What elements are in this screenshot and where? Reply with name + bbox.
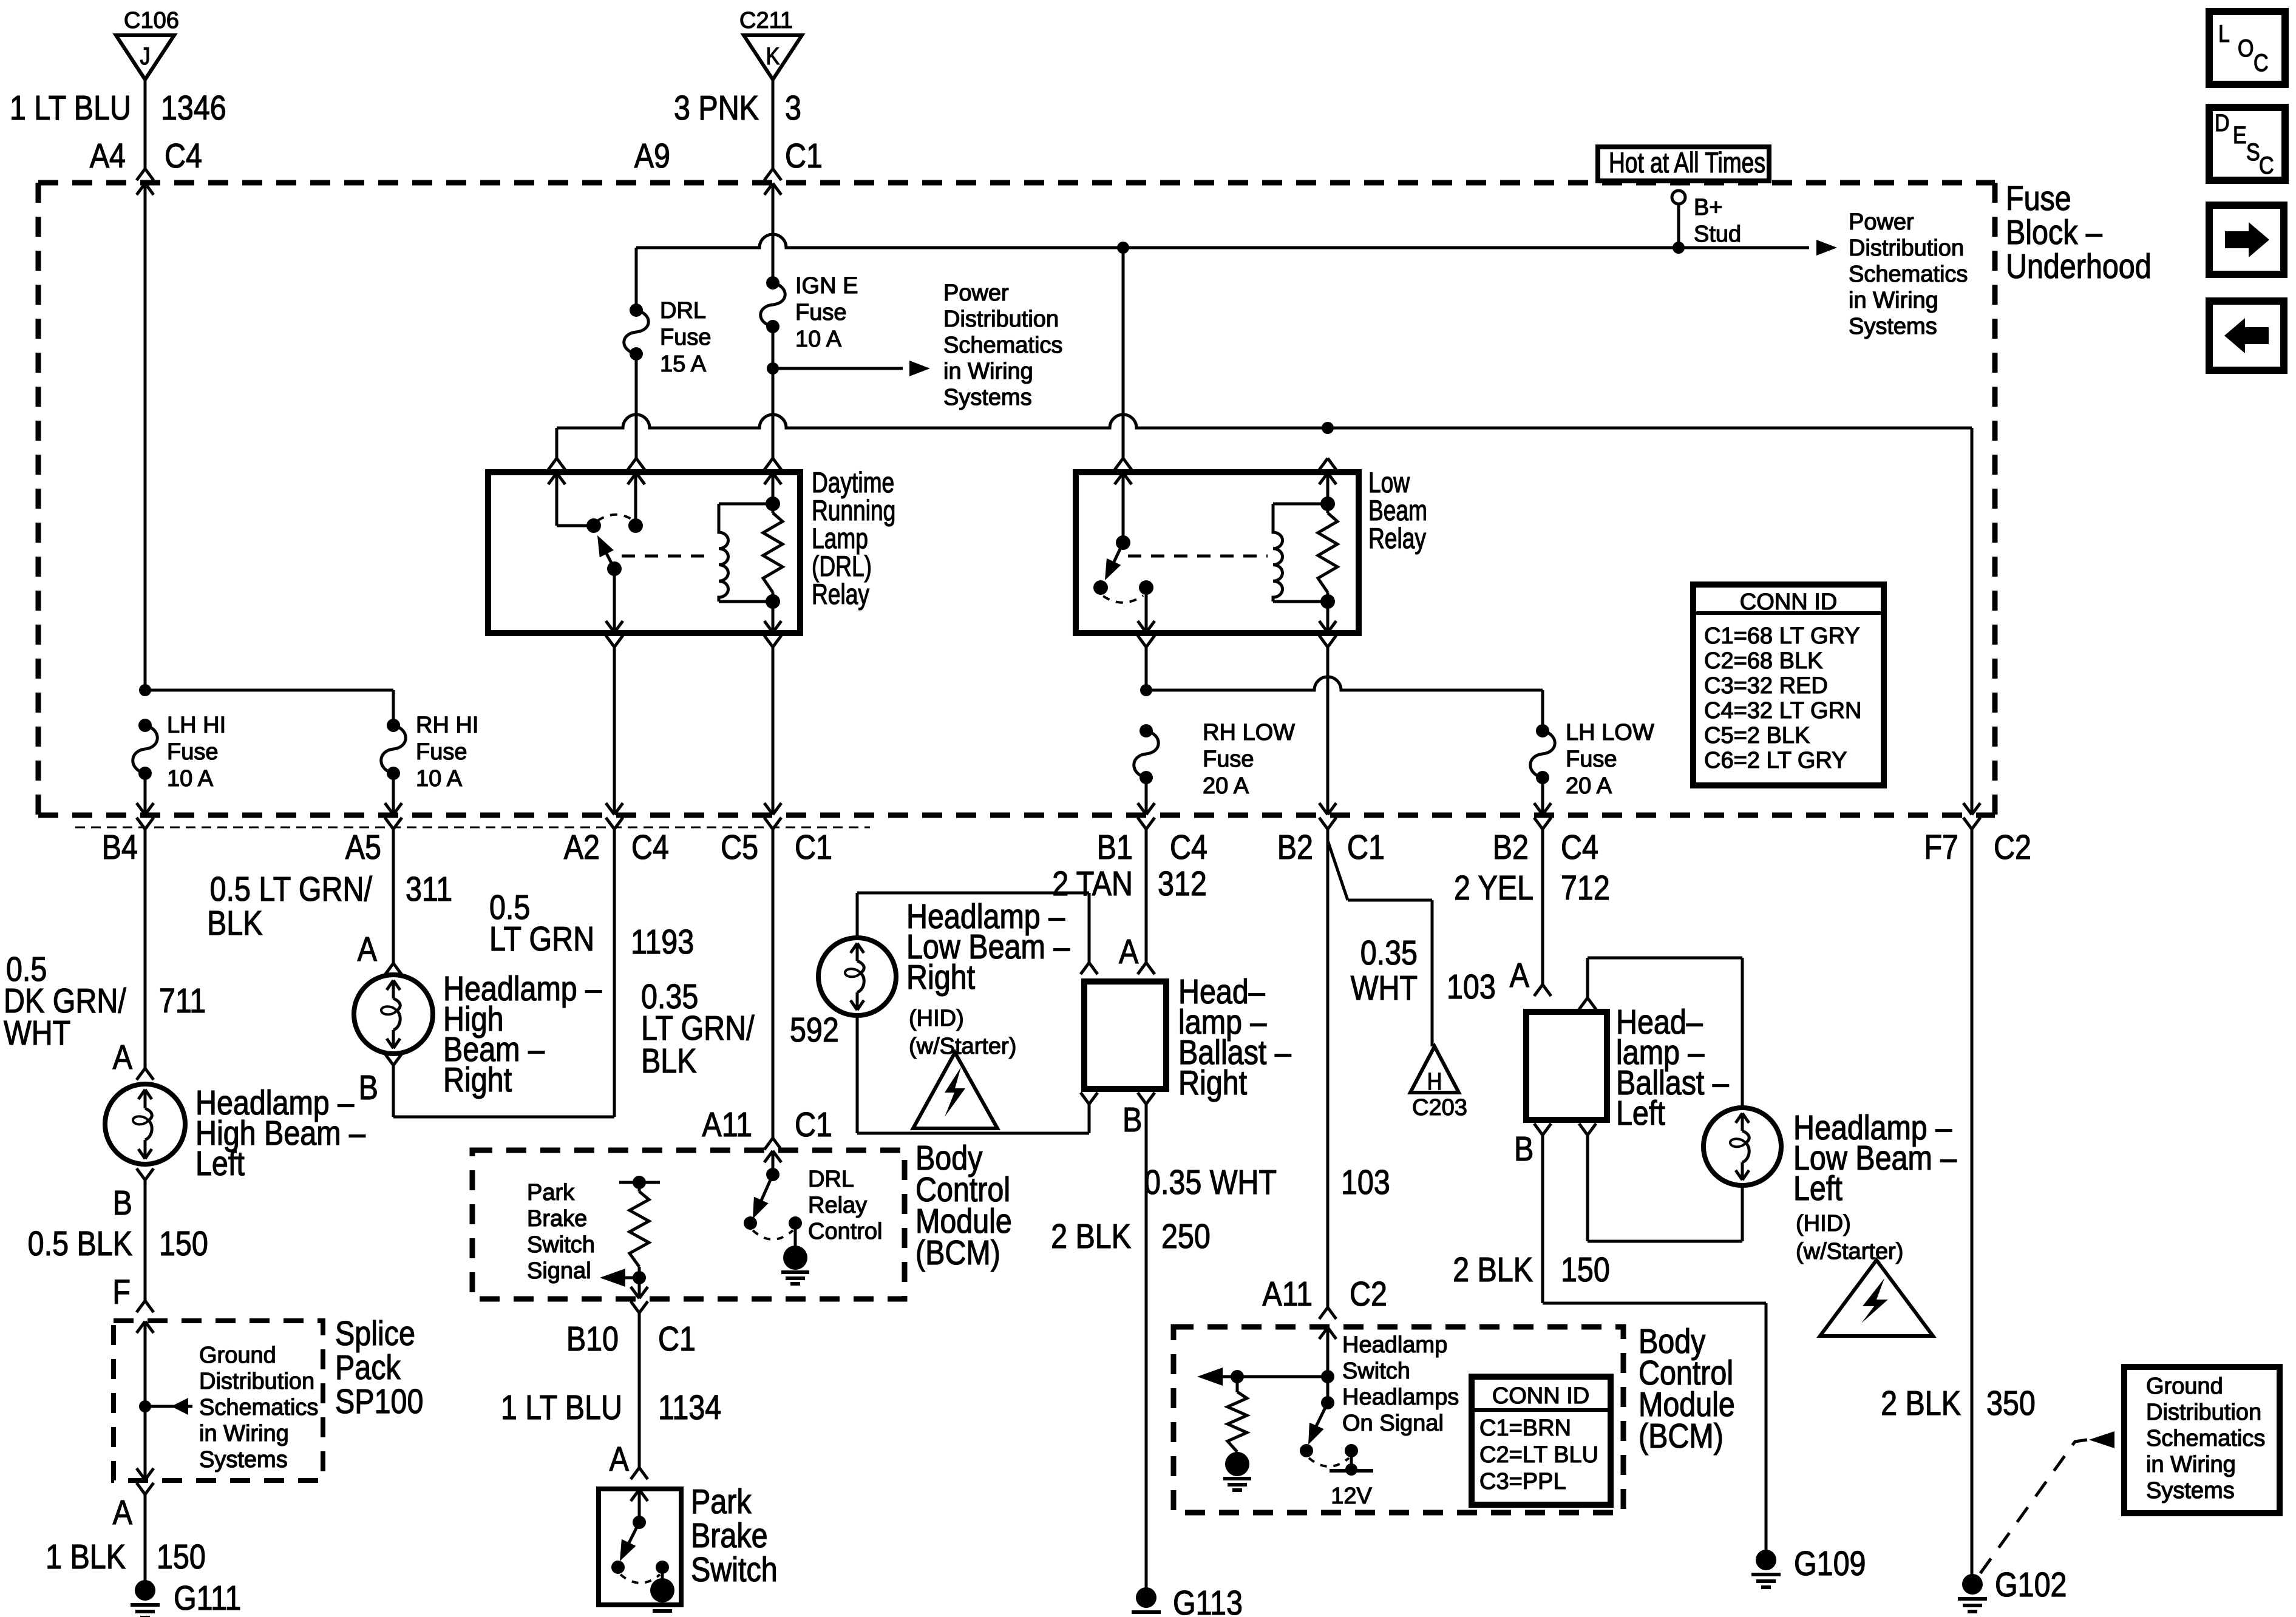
- svg-text:1 BLK: 1 BLK: [46, 1537, 126, 1576]
- svg-text:312: 312: [1158, 864, 1207, 903]
- svg-text:in Wiring: in Wiring: [199, 1421, 289, 1446]
- svg-text:A9: A9: [634, 137, 670, 175]
- svg-text:H: H: [1427, 1067, 1442, 1094]
- svg-text:2 YEL: 2 YEL: [1454, 869, 1533, 907]
- svg-text:D: D: [2215, 109, 2230, 136]
- svg-text:Distribution: Distribution: [943, 307, 1059, 332]
- svg-text:Right: Right: [443, 1060, 512, 1099]
- svg-text:B1: B1: [1097, 828, 1133, 867]
- svg-text:C: C: [2254, 49, 2269, 76]
- svg-text:B+: B+: [1694, 195, 1723, 220]
- svg-text:Left: Left: [1793, 1169, 1843, 1208]
- svg-text:A: A: [610, 1440, 630, 1479]
- svg-text:1346: 1346: [161, 89, 226, 127]
- svg-text:CONN ID: CONN ID: [1492, 1383, 1589, 1409]
- svg-text:Park: Park: [527, 1180, 575, 1205]
- svg-text:Left: Left: [1616, 1094, 1665, 1133]
- svg-text:A2: A2: [564, 828, 600, 867]
- svg-text:F: F: [112, 1273, 131, 1312]
- svg-text:A: A: [113, 1493, 133, 1532]
- svg-text:10 A: 10 A: [416, 766, 463, 792]
- svg-text:0.35 WHT: 0.35 WHT: [1144, 1163, 1277, 1202]
- svg-text:Systems: Systems: [199, 1447, 288, 1473]
- svg-text:Relay: Relay: [808, 1193, 867, 1218]
- svg-text:712: 712: [1561, 869, 1610, 907]
- svg-text:103: 103: [1341, 1163, 1390, 1202]
- svg-text:12V: 12V: [1331, 1483, 1372, 1509]
- svg-text:A: A: [358, 930, 378, 969]
- svg-text:C4=32 LT GRN: C4=32 LT GRN: [1704, 698, 1861, 724]
- svg-text:Distribution: Distribution: [2146, 1400, 2261, 1425]
- svg-text:Schematics: Schematics: [943, 333, 1062, 358]
- svg-text:Fuse: Fuse: [660, 325, 711, 350]
- svg-text:Fuse: Fuse: [2006, 179, 2071, 218]
- svg-text:20 A: 20 A: [1566, 773, 1612, 799]
- svg-text:DRL: DRL: [660, 298, 706, 324]
- svg-text:Switch: Switch: [1342, 1358, 1410, 1384]
- svg-text:L: L: [2218, 19, 2230, 47]
- svg-text:C1: C1: [658, 1320, 696, 1358]
- svg-text:Pack: Pack: [335, 1348, 401, 1387]
- svg-text:B: B: [359, 1068, 378, 1107]
- svg-text:150: 150: [157, 1537, 206, 1576]
- svg-text:Headlamp: Headlamp: [1342, 1332, 1447, 1358]
- svg-text:A11: A11: [702, 1105, 752, 1144]
- svg-text:Lamp: Lamp: [812, 523, 868, 554]
- svg-text:B: B: [1514, 1130, 1533, 1168]
- svg-text:A: A: [113, 1038, 133, 1077]
- svg-text:RH LOW: RH LOW: [1203, 720, 1295, 745]
- svg-text:Relay: Relay: [812, 578, 870, 610]
- svg-text:(BCM): (BCM): [915, 1233, 1000, 1272]
- svg-text:Schematics: Schematics: [199, 1395, 318, 1420]
- svg-text:Distribution: Distribution: [199, 1369, 314, 1394]
- svg-text:Systems: Systems: [1849, 314, 1937, 339]
- svg-text:10 A: 10 A: [167, 766, 214, 792]
- svg-text:0.5 LT GRN/: 0.5 LT GRN/: [210, 870, 373, 909]
- svg-text:C203: C203: [1412, 1095, 1467, 1120]
- svg-text:C1: C1: [1347, 828, 1385, 867]
- svg-text:Fuse: Fuse: [1203, 747, 1254, 772]
- svg-text:Switch: Switch: [527, 1232, 595, 1258]
- svg-text:592: 592: [790, 1011, 839, 1049]
- svg-text:Left: Left: [195, 1144, 245, 1183]
- svg-text:G113: G113: [1173, 1584, 1243, 1617]
- svg-text:C1=68 LT GRY: C1=68 LT GRY: [1704, 623, 1860, 649]
- svg-text:K: K: [766, 42, 780, 69]
- svg-text:Splice: Splice: [335, 1314, 415, 1353]
- svg-text:C2=68 BLK: C2=68 BLK: [1704, 648, 1822, 674]
- svg-text:Signal: Signal: [527, 1258, 591, 1284]
- svg-text:C1=BRN: C1=BRN: [1479, 1415, 1571, 1441]
- svg-text:C5=2 BLK: C5=2 BLK: [1704, 723, 1810, 748]
- svg-text:Fuse: Fuse: [1566, 747, 1617, 772]
- svg-text:1134: 1134: [658, 1388, 721, 1427]
- svg-text:BLK: BLK: [207, 904, 263, 943]
- svg-text:A11: A11: [1262, 1275, 1313, 1314]
- svg-text:C211: C211: [739, 8, 793, 33]
- svg-text:J: J: [140, 42, 150, 69]
- svg-text:C4: C4: [631, 828, 669, 867]
- svg-text:Schematics: Schematics: [2146, 1426, 2265, 1451]
- svg-text:On Signal: On Signal: [1342, 1411, 1444, 1436]
- svg-text:Right: Right: [906, 958, 975, 997]
- svg-text:2 BLK: 2 BLK: [1881, 1384, 1961, 1423]
- svg-text:C3=32 RED: C3=32 RED: [1704, 673, 1828, 699]
- svg-text:Beam: Beam: [1368, 495, 1427, 526]
- svg-text:C6=2 LT GRY: C6=2 LT GRY: [1704, 748, 1847, 773]
- svg-text:Low: Low: [1368, 467, 1410, 498]
- svg-text:2 BLK: 2 BLK: [1051, 1217, 1131, 1256]
- svg-text:A: A: [1510, 956, 1530, 995]
- svg-text:(w/Starter): (w/Starter): [1796, 1239, 1903, 1264]
- svg-text:S: S: [2246, 138, 2260, 165]
- svg-text:O: O: [2238, 34, 2254, 61]
- svg-text:B: B: [113, 1184, 132, 1222]
- svg-text:20 A: 20 A: [1203, 773, 1249, 799]
- svg-text:Stud: Stud: [1694, 222, 1741, 247]
- svg-text:C5: C5: [721, 828, 758, 867]
- svg-text:in Wiring: in Wiring: [943, 359, 1033, 384]
- svg-text:0.35: 0.35: [1360, 934, 1418, 972]
- svg-text:Systems: Systems: [943, 385, 1032, 410]
- svg-text:B: B: [1123, 1100, 1142, 1139]
- svg-text:311: 311: [406, 870, 452, 909]
- svg-text:C4: C4: [1561, 828, 1598, 867]
- svg-text:Power: Power: [943, 280, 1009, 306]
- svg-text:3: 3: [785, 89, 801, 127]
- svg-text:0.5 BLK: 0.5 BLK: [28, 1224, 132, 1263]
- svg-text:Hot at All Times: Hot at All Times: [1609, 147, 1765, 178]
- svg-text:15 A: 15 A: [660, 351, 707, 377]
- svg-text:C1: C1: [795, 828, 832, 867]
- svg-text:G102: G102: [1995, 1565, 2067, 1604]
- svg-text:Daytime: Daytime: [812, 467, 894, 498]
- svg-text:C2: C2: [1994, 828, 2031, 867]
- svg-text:LH HI: LH HI: [167, 713, 226, 738]
- svg-text:DRL: DRL: [808, 1167, 854, 1192]
- svg-text:Brake: Brake: [527, 1206, 587, 1232]
- svg-text:C2=LT BLU: C2=LT BLU: [1479, 1442, 1598, 1468]
- svg-text:1193: 1193: [631, 923, 694, 961]
- svg-text:C3=PPL: C3=PPL: [1479, 1469, 1566, 1494]
- svg-text:A4: A4: [90, 137, 126, 175]
- svg-text:Headlamps: Headlamps: [1342, 1385, 1459, 1410]
- svg-text:C106: C106: [124, 8, 179, 33]
- svg-text:Ground: Ground: [199, 1343, 276, 1368]
- svg-text:G111: G111: [174, 1579, 241, 1617]
- svg-text:250: 250: [1161, 1217, 1211, 1256]
- svg-text:B4: B4: [102, 828, 138, 867]
- svg-text:Systems: Systems: [2146, 1478, 2235, 1503]
- svg-text:C: C: [2259, 151, 2274, 178]
- svg-text:Fuse: Fuse: [795, 300, 846, 325]
- svg-text:10 A: 10 A: [795, 327, 842, 352]
- svg-text:Switch: Switch: [691, 1550, 778, 1589]
- svg-text:BLK: BLK: [641, 1042, 697, 1080]
- svg-text:Underhood: Underhood: [2006, 247, 2152, 286]
- svg-text:150: 150: [1561, 1250, 1610, 1289]
- svg-text:1 LT BLU: 1 LT BLU: [501, 1388, 622, 1427]
- svg-text:Schematics: Schematics: [1849, 262, 1968, 287]
- svg-text:B10: B10: [566, 1320, 619, 1358]
- svg-text:(HID): (HID): [1796, 1211, 1851, 1236]
- svg-text:WHT: WHT: [4, 1014, 70, 1053]
- svg-text:Right: Right: [1178, 1063, 1247, 1102]
- svg-text:RH HI: RH HI: [416, 713, 478, 738]
- svg-text:1 LT BLU: 1 LT BLU: [10, 89, 131, 127]
- svg-text:103: 103: [1447, 968, 1496, 1006]
- svg-text:IGN E: IGN E: [795, 273, 858, 299]
- svg-text:LT GRN: LT GRN: [489, 920, 594, 958]
- svg-text:LH LOW: LH LOW: [1566, 720, 1654, 745]
- svg-text:(HID): (HID): [909, 1006, 964, 1031]
- svg-text:A5: A5: [345, 828, 381, 867]
- svg-text:SP100: SP100: [335, 1382, 423, 1421]
- svg-text:G109: G109: [1794, 1544, 1866, 1583]
- svg-text:Fuse: Fuse: [167, 739, 218, 765]
- svg-text:Relay: Relay: [1368, 523, 1427, 554]
- svg-text:Fuse: Fuse: [416, 739, 467, 765]
- svg-text:(BCM): (BCM): [1639, 1417, 1724, 1456]
- svg-text:2 BLK: 2 BLK: [1453, 1250, 1533, 1289]
- svg-text:in Wiring: in Wiring: [1849, 288, 1938, 313]
- svg-text:B2: B2: [1277, 828, 1313, 867]
- svg-text:C1: C1: [785, 137, 823, 175]
- svg-text:Distribution: Distribution: [1849, 236, 1964, 261]
- svg-text:Power: Power: [1849, 209, 1914, 235]
- svg-text:Running: Running: [812, 495, 895, 526]
- svg-text:C4: C4: [165, 137, 202, 175]
- svg-text:Ground: Ground: [2146, 1374, 2223, 1399]
- svg-text:C2: C2: [1350, 1275, 1387, 1314]
- svg-text:F7: F7: [1924, 828, 1958, 867]
- svg-text:B2: B2: [1493, 828, 1529, 867]
- svg-text:Control: Control: [808, 1219, 883, 1244]
- svg-text:WHT: WHT: [1351, 969, 1418, 1008]
- svg-text:E: E: [2233, 121, 2247, 148]
- svg-text:(DRL): (DRL): [812, 551, 872, 582]
- svg-text:Brake: Brake: [691, 1516, 768, 1555]
- svg-text:in Wiring: in Wiring: [2146, 1452, 2236, 1477]
- svg-text:3 PNK: 3 PNK: [674, 89, 759, 127]
- svg-text:C1: C1: [795, 1105, 832, 1144]
- svg-text:Park: Park: [691, 1482, 752, 1521]
- svg-text:CONN ID: CONN ID: [1740, 589, 1837, 615]
- svg-text:150: 150: [159, 1224, 208, 1263]
- svg-text:A: A: [1119, 932, 1139, 971]
- svg-text:Block –: Block –: [2006, 213, 2102, 252]
- svg-text:(w/Starter): (w/Starter): [909, 1034, 1016, 1059]
- svg-text:350: 350: [1986, 1384, 2036, 1423]
- svg-text:711: 711: [159, 981, 206, 1020]
- svg-text:C4: C4: [1170, 828, 1207, 867]
